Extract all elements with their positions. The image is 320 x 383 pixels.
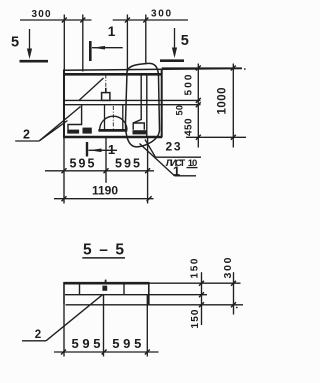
svg-text:5: 5	[11, 35, 19, 51]
ticks right chains	[196, 66, 236, 140]
svg-text:300: 300	[222, 257, 234, 278]
plan right edge	[161, 69, 163, 138]
extension center down bottom	[103, 305, 105, 357]
section marker 5 right: arrow	[174, 28, 176, 55]
svg-text:2: 2	[35, 329, 41, 341]
top dimension line right segment	[113, 19, 188, 21]
left plate filled bar 2	[83, 128, 92, 134]
bottom right chain 150-150	[201, 272, 203, 325]
svg-text:23: 23	[166, 140, 181, 154]
right extension line bottom	[186, 136, 246, 138]
left plate filled bar	[67, 130, 79, 134]
label 2 bottom underline	[22, 340, 46, 342]
view arrow 1 bottom: head	[89, 149, 102, 153]
section title underline	[82, 257, 125, 259]
svg-text:1190: 1190	[92, 183, 118, 197]
svg-text:5: 5	[181, 33, 189, 49]
section top edge	[64, 282, 150, 285]
section rib right	[123, 284, 125, 295]
svg-text:595: 595	[115, 157, 140, 171]
dot end of chain	[236, 307, 238, 309]
left step plate outline	[68, 105, 82, 130]
leader to node 1	[140, 144, 175, 176]
underline under 10	[187, 167, 198, 169]
view arrow 1 bottom: shaft	[89, 149, 118, 151]
svg-text:1: 1	[108, 142, 115, 157]
extension line far right	[145, 15, 147, 64]
svg-text:450: 450	[184, 118, 195, 136]
section marker 5 right: thick bar	[160, 59, 184, 62]
svg-text:1: 1	[173, 164, 180, 179]
extension center down	[105, 138, 107, 183]
svg-text:50: 50	[175, 105, 185, 116]
right extension dot	[244, 68, 246, 70]
extension line left edge	[63, 15, 65, 72]
svg-text:500: 500	[184, 74, 195, 95]
right extension line top	[162, 67, 242, 69]
svg-text:150: 150	[190, 309, 201, 328]
view arrow 1 top: shaft	[92, 47, 123, 49]
svg-text:5 – 5: 5 – 5	[83, 242, 124, 259]
section marker 5 left: arrow	[29, 29, 31, 56]
label 2 underline	[15, 140, 39, 142]
section left edge	[63, 282, 65, 305]
section third line with extension	[66, 304, 244, 306]
bottom right chain 300	[233, 272, 235, 314]
right plate filled bar	[133, 130, 147, 134]
semicircle	[100, 116, 127, 130]
diagonal leader in top band	[79, 78, 104, 100]
svg-text:595: 595	[72, 336, 101, 351]
bolt vertical right through arc	[122, 105, 124, 130]
svg-text:2: 2	[23, 128, 30, 142]
ticks bottom right chains	[199, 281, 236, 308]
callout 23 line	[156, 156, 202, 158]
extension line inner right	[126, 15, 128, 72]
view arrow 1 bottom: bar	[86, 142, 88, 157]
dimension line 1190	[54, 198, 154, 200]
view arrow 1 top: head	[93, 46, 106, 50]
extension line bolt axis left	[82, 15, 84, 72]
middle band bottom line extending to dimension	[64, 104, 201, 106]
dimension chain 1000	[232, 64, 234, 148]
tick marks top dimension	[62, 18, 149, 23]
label 2 leader b	[40, 107, 81, 141]
svg-text:300: 300	[151, 9, 171, 20]
svg-text:595: 595	[112, 336, 141, 351]
ticks 1190	[62, 196, 152, 201]
anchor bolt square top view	[102, 93, 110, 101]
section second line extension	[149, 294, 207, 296]
extension left edge down bottom	[63, 305, 65, 357]
extension right inner down	[147, 138, 149, 204]
dimension line 595 595 bottom	[54, 351, 159, 353]
right step plate outline with vertical from top band	[133, 75, 141, 130]
leader to position 23	[145, 140, 156, 158]
extension left edge down	[63, 138, 65, 204]
label 2 bottom leader	[46, 294, 103, 341]
bolt axis dash-dot	[105, 75, 107, 89]
svg-text:595: 595	[70, 157, 95, 171]
section second line	[65, 294, 149, 296]
section center rib	[103, 295, 105, 305]
semicircle axis dash-dot	[112, 106, 114, 129]
view arrow 1 top: bar	[89, 41, 92, 61]
dimension chain 500-50-450	[197, 64, 199, 148]
extension right down bottom	[146, 295, 148, 357]
bolt vertical left through arc	[104, 105, 106, 130]
ticks 595 bottom	[61, 350, 150, 355]
section rib left	[79, 284, 81, 295]
section bolt square below plate	[102, 286, 107, 291]
semicircle chord thick	[98, 129, 127, 132]
label 2 leader a	[40, 121, 68, 141]
section marker 5 left: thick bar	[20, 60, 49, 63]
top dimension line left segment	[20, 19, 92, 21]
node 1 line	[175, 175, 197, 177]
svg-text:150: 150	[190, 258, 201, 278]
plan left edge	[63, 70, 65, 138]
svg-text:300: 300	[32, 9, 51, 20]
section top edge extension right	[149, 282, 241, 284]
plan bottom edge	[63, 136, 162, 138]
section right edge	[148, 282, 150, 305]
ticks 595	[62, 168, 151, 173]
dimension line 595 595	[45, 170, 154, 172]
plan top edge	[63, 73, 162, 76]
section bolt pin above plate	[105, 280, 107, 284]
svg-text:1: 1	[108, 24, 116, 39]
right step small rect	[133, 123, 144, 130]
middle band top line extending to dimension	[64, 99, 201, 101]
svg-text:1000: 1000	[217, 88, 229, 115]
detail callout oval	[125, 63, 159, 146]
anchor bolt pin	[105, 88, 107, 93]
plan top line upper, continues as right extension	[64, 69, 242, 71]
interior vertical right	[146, 75, 148, 137]
